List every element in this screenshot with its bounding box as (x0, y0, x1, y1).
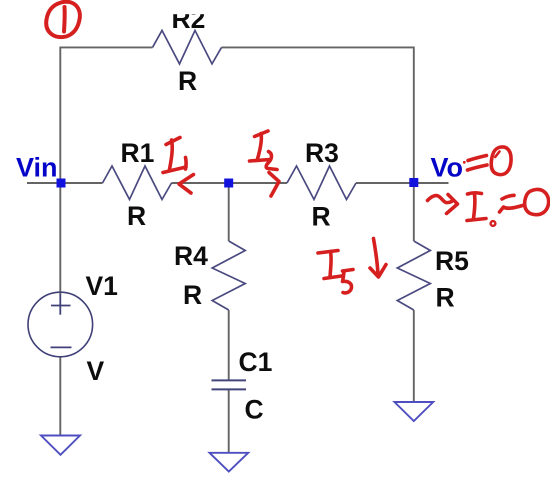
svg-text:R: R (312, 202, 331, 232)
annotation current I2 (red) (250, 131, 278, 170)
svg-text:Vin: Vin (16, 153, 58, 183)
wire Vin node down to V1 (59, 183, 61, 294)
annotation arrow for I2 pointing right (red) (269, 173, 279, 197)
svg-text:V1: V1 (86, 271, 118, 301)
ground under R5 (395, 402, 434, 421)
svg-text:R: R (436, 283, 455, 313)
wire Vo node down to R5 (413, 183, 415, 241)
svg-text:C1: C1 (239, 347, 273, 377)
annotation current I1 (red) (163, 138, 186, 173)
resistor R2 (153, 30, 222, 64)
annotation arrow for I1 pointing left (red) (179, 175, 194, 194)
annotation =0 after Vo (red) (463, 147, 511, 175)
annotation current I5 (red) (318, 251, 353, 293)
ground under C1 (210, 453, 249, 472)
svg-text:C: C (245, 395, 264, 425)
svg-text:Vo: Vo (431, 153, 464, 183)
ground under V1 (41, 436, 80, 455)
wire middle node to R3 (229, 182, 287, 184)
voltage source V1 circle (28, 292, 93, 357)
wire R3 to Vo node with right stub (356, 182, 449, 184)
svg-text:R: R (127, 201, 146, 231)
resistor R4 (212, 241, 245, 310)
svg-text:V: V (87, 356, 105, 386)
svg-text:R4: R4 (174, 241, 208, 271)
capacitor C1 plates (212, 380, 247, 389)
resistor R3 (287, 166, 356, 200)
resistor R5 (397, 241, 430, 310)
white crop band hiding top of R2 label (164, 0, 214, 14)
wire middle node down to R4 (228, 183, 230, 241)
V1 plus sign (51, 294, 71, 315)
annotation down arrow near R5 (red) (370, 239, 386, 278)
V1 minus sign (51, 346, 72, 348)
resistor R1 (103, 166, 172, 200)
node Vo (square) (409, 178, 418, 187)
wire top-left vertical+horizontal (Vin node to R2) (60, 47, 152, 183)
wire R4 to C1 (228, 310, 230, 380)
svg-text:R3: R3 (305, 138, 339, 168)
svg-text:R: R (178, 66, 197, 96)
svg-text:R5: R5 (435, 246, 469, 276)
wire R5 to ground (413, 310, 415, 403)
annotation implies Io = 0 (red) (428, 189, 549, 225)
wire C1 to ground (228, 390, 230, 454)
wire R1 to middle node (172, 182, 229, 184)
node Vin (square) (57, 179, 66, 188)
wire R2 to right vertical down to Vo node (222, 47, 414, 183)
svg-text:R1: R1 (121, 138, 155, 168)
annotation circled 1 (red) (46, 2, 80, 37)
node middle (square) (224, 179, 233, 188)
svg-text:R: R (183, 280, 202, 310)
wire left stub into Vin node (27, 182, 103, 184)
wire V1 bottom to ground (59, 356, 61, 436)
